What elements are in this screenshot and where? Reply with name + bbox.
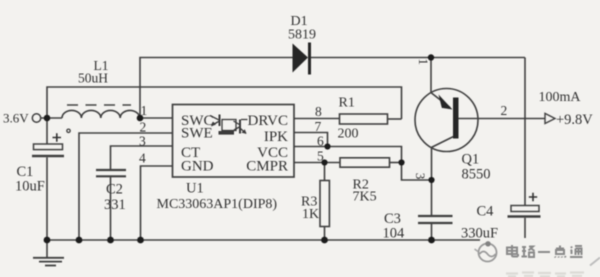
svg-text:3: 3 (139, 134, 146, 149)
wire input node up to R1 feed line (47, 87, 402, 119)
svg-text:7: 7 (315, 119, 322, 134)
watermark logo circle (479, 244, 497, 262)
svg-text:+9.8V: +9.8V (556, 112, 593, 128)
svg-text:Q1: Q1 (462, 152, 480, 168)
capacitor C1 top plate (34, 144, 63, 150)
svg-text:DRVC: DRVC (248, 113, 288, 129)
plus sign C4 (529, 193, 537, 201)
svg-text:3.6V: 3.6V (3, 111, 29, 126)
capacitor C2 bottom plate (96, 175, 126, 177)
inductor L1 core dashed line (67, 104, 131, 106)
diode D1 (293, 43, 459, 139)
resistor R3 body (320, 181, 329, 227)
char 电 (507, 245, 518, 257)
wire IC pin 2 to ground (79, 133, 173, 240)
svg-text:IPK: IPK (264, 129, 288, 145)
transistor Q1 circle (415, 89, 478, 152)
watermark corner mark (590, 258, 600, 266)
wire R1 right lead (388, 118, 402, 120)
wire Q1 base to output (459, 118, 545, 120)
svg-text:4: 4 (139, 151, 146, 166)
char 路 (522, 247, 535, 258)
char 一 (538, 251, 550, 253)
winding polarity mark (67, 129, 70, 132)
svg-text:MC33063AP1(DIP8): MC33063AP1(DIP8) (157, 197, 278, 212)
wire C1 to ground rail (46, 157, 48, 240)
wire IC pin 4 GND to rail (141, 166, 173, 240)
wire IC pin 6 to right vertical (294, 147, 432, 181)
capacitor C4 top plate (511, 206, 539, 212)
svg-text:104: 104 (383, 226, 406, 242)
wire IC pin 7 down to pin 6 line (294, 133, 328, 147)
plus sign C1 (53, 133, 538, 201)
capacitor C4 bottom plate (508, 215, 541, 218)
Q1 collector diagonal (432, 137, 454, 148)
capacitor C1 bottom plate (32, 155, 64, 158)
inductor L1 coil (62, 110, 140, 118)
svg-text:5819: 5819 (288, 28, 316, 43)
internal darlington doodle inside U1 (210, 115, 248, 134)
svg-text:10uF: 10uF (15, 179, 45, 195)
wire R2 right lead (390, 162, 402, 164)
resistor R2 body (340, 158, 390, 167)
svg-text:1K: 1K (302, 207, 319, 222)
wire output corner down to C4 (524, 58, 526, 206)
svg-text:331: 331 (104, 197, 126, 213)
wire R3 to rail (324, 227, 326, 241)
svg-text:CMPR: CMPR (246, 159, 288, 175)
wire input node down to C1 (46, 118, 48, 144)
svg-text:100mA: 100mA (539, 90, 582, 105)
svg-text:8: 8 (315, 104, 322, 119)
wire Q1 emitter from top rail (430, 58, 432, 93)
Q1 emitter diagonal (431, 93, 450, 108)
svg-text:5: 5 (317, 148, 324, 163)
terminal 3.6V input (32, 114, 40, 122)
ground symbol (46, 240, 48, 257)
svg-text:3: 3 (413, 173, 428, 180)
wire C2 to ground rail (110, 176, 112, 240)
resistor R1 body (340, 114, 388, 124)
svg-text:GND: GND (181, 159, 214, 175)
wire pin5 node down to R3 (324, 163, 326, 181)
wire top rail from node above L1 (140, 58, 293, 119)
svg-text:2: 2 (501, 103, 508, 118)
svg-text:50uH: 50uH (78, 71, 108, 86)
watermark ghost bottom (506, 273, 584, 277)
wire IC pin 8 to R1 (294, 118, 340, 120)
Q1 emitter arrowhead (439, 95, 453, 110)
char 点 (555, 246, 566, 258)
svg-text:8550: 8550 (462, 167, 491, 183)
capacitor C2 top plate (96, 169, 126, 171)
char 通 (570, 246, 583, 257)
capacitor C3 bottom plate (418, 222, 453, 224)
svg-text:SWE: SWE (181, 125, 213, 141)
svg-text:C4: C4 (477, 204, 495, 220)
IC U1 box (173, 105, 295, 178)
watermark text 电路一点通 (507, 245, 583, 258)
wire IC pin 5 to R2 (294, 162, 340, 164)
svg-text:C2: C2 (106, 182, 123, 198)
wire C3 to rail (431, 223, 433, 240)
wire coil to IC pin 1 (140, 117, 173, 119)
output arrow (545, 113, 555, 123)
wire Q1 collector down to C3 (431, 147, 433, 215)
capacitor C3 top plate (418, 215, 453, 217)
wire C4 bottom stub (524, 218, 526, 238)
svg-text:1: 1 (141, 103, 148, 118)
svg-text:200: 200 (338, 127, 359, 142)
svg-text:2: 2 (140, 119, 147, 134)
svg-text:1: 1 (416, 59, 431, 66)
diode D1 cathode side wire to output corner (311, 57, 526, 59)
ground rail (47, 239, 480, 241)
Q1 base bar (453, 98, 459, 139)
svg-text:R1: R1 (339, 96, 355, 111)
wire IC pin 3 to C2 (111, 146, 173, 170)
svg-text:7K5: 7K5 (353, 190, 377, 205)
wire input to inductor (41, 117, 62, 119)
svg-text:330uF: 330uF (461, 226, 498, 242)
svg-text:U1: U1 (186, 180, 204, 196)
svg-text:6: 6 (317, 134, 324, 149)
